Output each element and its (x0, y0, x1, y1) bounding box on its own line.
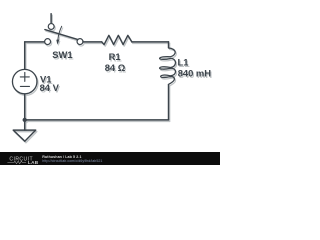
schematic main ink (12, 14, 211, 142)
svg-text:LAB: LAB (28, 160, 39, 165)
schematic drop shadow (14, 15, 213, 143)
CircuitLab logo (4, 150, 46, 165)
footer url (42, 159, 102, 163)
circuit schematic canvas (0, 0, 220, 165)
footer bar (0, 152, 220, 165)
footer title (42, 155, 81, 159)
